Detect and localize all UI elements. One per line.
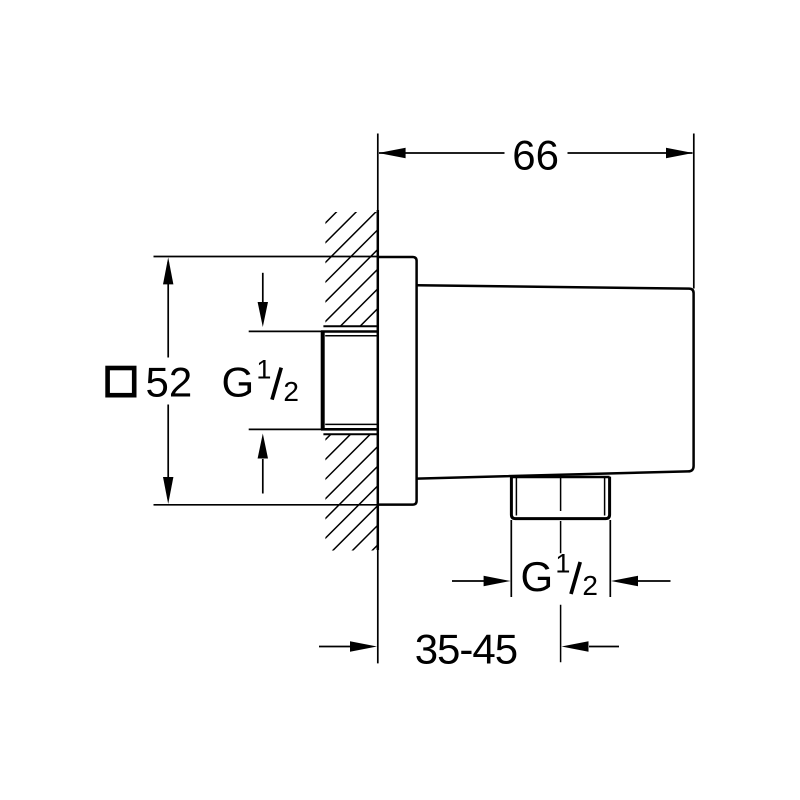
svg-text:G: G [521, 553, 554, 600]
svg-text:1: 1 [555, 549, 570, 579]
svg-text:66: 66 [512, 131, 559, 178]
svg-text:35-45: 35-45 [415, 626, 517, 673]
svg-text:2: 2 [283, 376, 299, 407]
svg-text:1: 1 [256, 354, 271, 384]
svg-text:52: 52 [146, 359, 193, 406]
svg-text:G: G [222, 359, 255, 406]
svg-text:2: 2 [582, 570, 598, 601]
